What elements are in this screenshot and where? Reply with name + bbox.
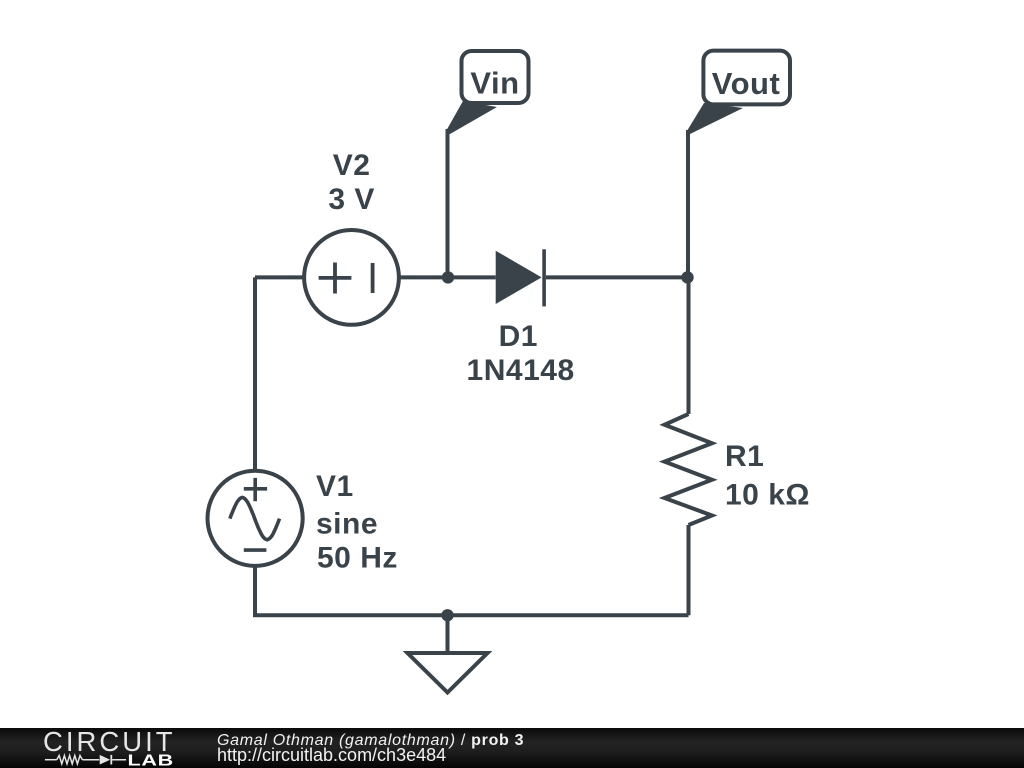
svg-text:1N4148: 1N4148 [467, 354, 575, 387]
svg-text:R1: R1 [725, 440, 764, 473]
svg-text:V1: V1 [316, 470, 354, 503]
svg-text:50 Hz: 50 Hz [317, 542, 398, 575]
svg-text:sine: sine [316, 508, 378, 541]
svg-text:LAB: LAB [128, 752, 174, 768]
svg-text:10 kΩ: 10 kΩ [725, 479, 810, 512]
svg-text:3 V: 3 V [328, 183, 375, 216]
svg-text:D1: D1 [499, 320, 538, 353]
svg-text:Vin: Vin [470, 65, 519, 100]
svg-text:V2: V2 [333, 149, 371, 182]
svg-text:Vout: Vout [712, 66, 781, 101]
